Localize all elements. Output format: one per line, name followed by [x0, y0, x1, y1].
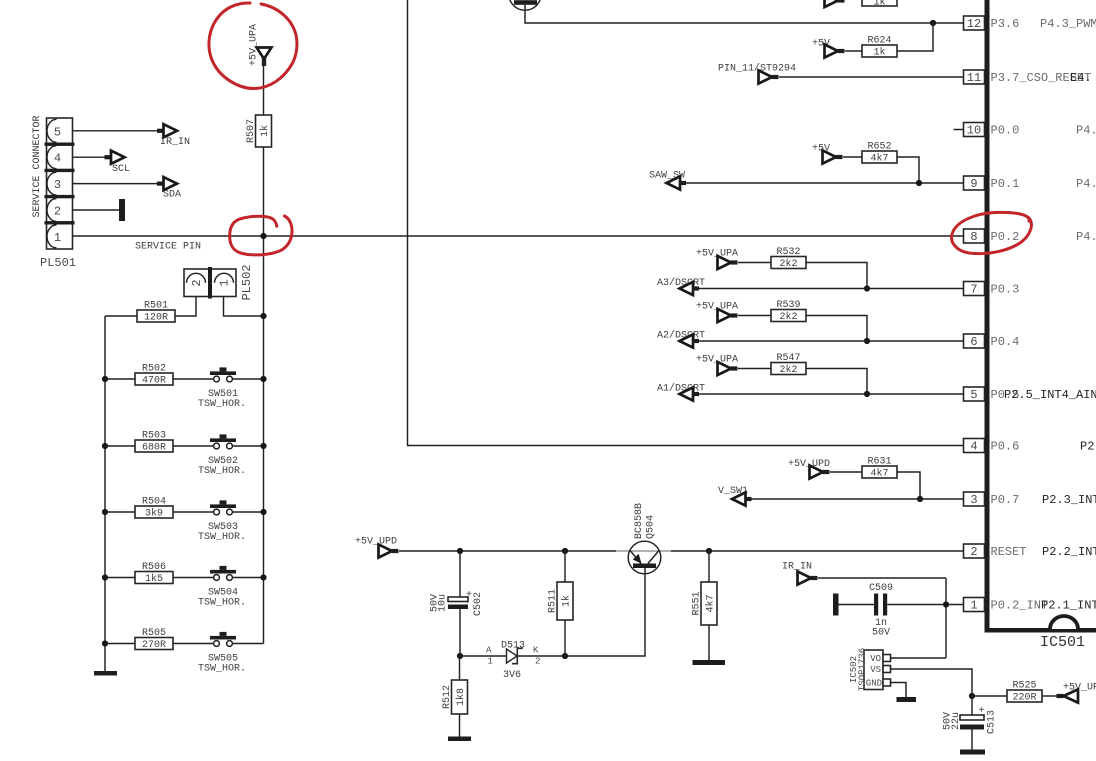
svg-text:1k5: 1k5	[145, 573, 163, 585]
svg-text:5: 5	[970, 388, 977, 402]
svg-text:3: 3	[54, 178, 61, 192]
svg-text:VS: VS	[870, 665, 881, 675]
wire IC502 VS	[891, 669, 973, 696]
svg-text:PL501: PL501	[40, 256, 76, 270]
IC501 pin 1 box	[964, 598, 985, 613]
power +5V (R624)	[812, 39, 845, 58]
wire	[845, 50, 862, 52]
diode D513 3V6 (zener)	[460, 641, 540, 682]
junction node service line / R507 bus	[260, 233, 266, 239]
svg-text:680R: 680R	[142, 443, 166, 454]
svg-text:9: 9	[970, 177, 977, 191]
svg-text:R507: R507	[246, 119, 257, 143]
svg-text:8: 8	[970, 230, 977, 244]
wire	[232, 643, 263, 645]
wire	[830, 471, 862, 473]
power +5V_UPA (R532)	[696, 249, 738, 270]
wire IR_IN / pin1 / IC502 VO vertical	[818, 577, 946, 579]
junction node R551 top	[706, 548, 712, 554]
wire to pin 9	[686, 182, 964, 184]
svg-text:TSW_HOR.: TSW_HOR.	[198, 664, 246, 675]
junction node pin3 / R631	[917, 496, 923, 502]
svg-text:10u: 10u	[438, 594, 449, 612]
svg-text:R631: R631	[867, 457, 891, 468]
IC501 pin 12 box	[964, 16, 985, 31]
IC501 pin 9 box	[964, 176, 985, 191]
IC501 pin 6 box	[964, 334, 985, 349]
junction node left bus row R503	[102, 443, 108, 449]
wire PL501 pin2	[73, 209, 120, 211]
svg-text:D513: D513	[501, 641, 525, 652]
wire	[806, 263, 867, 289]
wire	[843, 156, 862, 158]
svg-text:P4.: P4.	[1076, 124, 1096, 138]
svg-text:1: 1	[970, 599, 977, 613]
svg-text:SCL: SCL	[112, 164, 130, 175]
wire PL501 pin5	[73, 130, 158, 132]
svg-text:1: 1	[54, 231, 61, 245]
resistor R532 2k2	[771, 247, 806, 270]
svg-text:TSW_HOR.: TSW_HOR.	[198, 598, 246, 609]
power +5V_UPA (R547)	[696, 355, 738, 376]
junction node A3/DSCRT	[864, 285, 870, 291]
svg-text:P2.2_INT: P2.2_INT	[1042, 545, 1096, 559]
svg-text:+5V_UPD: +5V_UPD	[355, 537, 397, 548]
IC501 pin 7 box	[964, 282, 985, 297]
svg-text:IR_IN: IR_IN	[160, 137, 190, 148]
wire PL501 pin3	[73, 183, 158, 185]
wire	[738, 315, 771, 317]
svg-text:2: 2	[535, 657, 540, 667]
ground (IC502)	[897, 697, 917, 702]
wire VS to R525	[972, 695, 1007, 697]
wire PL502 pin1 to bus	[224, 297, 264, 317]
ground (R512)	[448, 737, 471, 742]
wire	[738, 368, 771, 370]
svg-text:2k2: 2k2	[779, 364, 797, 376]
wire	[897, 157, 919, 183]
wire	[263, 66, 265, 116]
wire R501 to left bus	[105, 315, 137, 317]
ground (C513)	[960, 750, 985, 755]
wire	[173, 378, 214, 380]
svg-text:R532: R532	[776, 247, 800, 258]
junction node right bus row R504	[260, 509, 266, 515]
svg-text:TSW_HOR.: TSW_HOR.	[198, 532, 246, 543]
resistor R501 120R	[137, 301, 175, 324]
ground (R551)	[693, 660, 726, 665]
wire	[173, 511, 214, 513]
wire	[173, 445, 214, 447]
junction node R511 top	[562, 548, 568, 554]
resistor R511 1k	[548, 582, 574, 620]
wire IC502 VO	[891, 657, 947, 659]
svg-text:P0.2: P0.2	[991, 230, 1020, 244]
svg-text:E4.: E4.	[1070, 71, 1092, 85]
transistor (partial, top edge)	[509, 0, 541, 10]
svg-text:4k7: 4k7	[705, 594, 717, 612]
svg-text:4k7: 4k7	[870, 468, 888, 480]
wire	[897, 23, 933, 51]
junction node C502 / R512 / D513	[457, 653, 463, 659]
svg-text:2k2: 2k2	[779, 311, 797, 323]
resistor R652 4k7	[862, 142, 897, 165]
svg-text:4: 4	[970, 440, 977, 454]
svg-text:R525: R525	[1012, 681, 1036, 692]
red annotation circle around +5V_UPA	[209, 3, 297, 89]
junction node left bus row R505	[102, 640, 108, 646]
svg-text:R652: R652	[867, 142, 891, 153]
junction node C502 top	[457, 548, 463, 554]
svg-text:R506: R506	[142, 562, 166, 573]
wire	[897, 472, 920, 499]
signal arrow IR_IN (bottom)	[782, 562, 818, 585]
svg-text:120R: 120R	[144, 313, 168, 324]
wire D513 to Q504 base	[517, 568, 645, 657]
capacitor C513 22u 50V	[943, 696, 998, 750]
power +5V (R652)	[812, 144, 843, 164]
wire	[105, 577, 135, 579]
red annotation circle around service-pin junction	[230, 216, 292, 255]
svg-text:PL502: PL502	[240, 264, 254, 300]
wire	[232, 511, 263, 513]
svg-text:SDA: SDA	[163, 190, 181, 201]
svg-text:P3.6: P3.6	[991, 17, 1020, 31]
signal arrow V_SW1	[718, 486, 752, 506]
svg-text:TSW_HOR.: TSW_HOR.	[198, 466, 246, 477]
wire IC502 GND	[891, 683, 907, 698]
wire PL501 pin4	[73, 156, 105, 158]
svg-text:Q504: Q504	[646, 515, 657, 539]
svg-text:50V: 50V	[872, 628, 890, 639]
IC IC501 bottom edge	[985, 628, 1096, 633]
wire	[173, 577, 214, 579]
wire pin 10 stub	[954, 129, 964, 131]
wire	[459, 656, 461, 680]
resistor R551 4k7	[692, 582, 718, 625]
resistor R539 2k2	[771, 300, 806, 323]
wire	[738, 262, 771, 264]
wire	[105, 511, 135, 513]
svg-text:3: 3	[970, 493, 977, 507]
svg-text:R502: R502	[142, 364, 166, 375]
wire to pin 11	[779, 76, 964, 78]
resistor R502 470R	[135, 364, 173, 387]
svg-text:3V6: 3V6	[503, 670, 521, 681]
signal arrow PIN_11/ST9294	[718, 63, 796, 84]
wire	[708, 551, 710, 582]
svg-text:BC858B: BC858B	[634, 503, 645, 539]
IC IC501 left edge	[985, 0, 990, 633]
svg-text:C502: C502	[473, 592, 484, 616]
svg-text:P2.5_INT4_AIN: P2.5_INT4_AIN	[1004, 388, 1096, 402]
junction node R511 bottom	[562, 653, 568, 659]
junction node left bus row R504	[102, 509, 108, 515]
resistor R504 3k9	[135, 497, 173, 520]
svg-text:1: 1	[218, 279, 232, 286]
red annotation circle around IC501 pin 8	[952, 212, 1032, 253]
wire to pin 3	[752, 498, 964, 500]
resistor R631 4k7	[862, 457, 897, 480]
svg-text:R512: R512	[442, 685, 453, 709]
svg-text:P4.3_PWM: P4.3_PWM	[1040, 17, 1096, 31]
svg-text:+: +	[979, 706, 985, 717]
switch SW504 TSW_HOR.	[198, 566, 246, 609]
svg-text:7: 7	[970, 283, 977, 297]
svg-text:R505: R505	[142, 628, 166, 639]
wire +5V_UPD to IC501 pin2 (RESET)	[399, 550, 964, 552]
resistor R503 680R	[135, 431, 173, 454]
wire to IC501 pin12	[525, 5, 964, 23]
svg-text:1: 1	[488, 657, 493, 667]
power +5V (cut off at top)	[825, 0, 845, 7]
svg-text:270R: 270R	[142, 640, 166, 651]
svg-text:IC501: IC501	[1040, 634, 1085, 651]
resistor R507 1k	[246, 115, 272, 147]
svg-text:R539: R539	[776, 300, 800, 311]
connector PL501	[45, 118, 75, 249]
svg-text:4k7: 4k7	[870, 153, 888, 165]
svg-text:GND: GND	[866, 679, 882, 689]
svg-text:A: A	[486, 646, 492, 656]
wire	[1042, 695, 1058, 697]
IC501 pin 10 box	[964, 123, 985, 138]
transistor Q504 BC858B (PNP)	[616, 503, 671, 574]
svg-text:470R: 470R	[142, 376, 166, 387]
switch SW505 TSW_HOR.	[198, 632, 246, 675]
svg-text:2k2: 2k2	[779, 258, 797, 270]
svg-text:R503: R503	[142, 431, 166, 442]
svg-text:K: K	[533, 646, 539, 656]
signal arrow IR_IN	[157, 124, 190, 148]
terminator bar pin2	[119, 199, 125, 221]
signal arrow SAW_SW	[649, 171, 686, 190]
resistor R525 220R	[1007, 681, 1042, 704]
junction node pin1 / IR_IN / VO	[943, 601, 949, 607]
power +5V_UPA (R539)	[696, 302, 738, 323]
terminator bar (C509 left)	[833, 594, 839, 616]
svg-text:4: 4	[54, 152, 61, 166]
ground (left bus)	[94, 671, 117, 676]
wire	[564, 551, 566, 582]
junction node A2/DSCRT	[864, 338, 870, 344]
resistor R624 1k	[862, 36, 897, 59]
power +5V_UPA (top)	[249, 24, 272, 66]
svg-text:1k: 1k	[873, 47, 885, 59]
IC501 pin 2 box	[964, 544, 985, 559]
junction node left bus row R502	[102, 376, 108, 382]
wire left bus	[104, 316, 106, 672]
svg-text:RESET: RESET	[991, 545, 1027, 559]
power +5V_UP (right edge)	[1057, 683, 1096, 703]
resistor R512 1k8	[442, 680, 468, 714]
svg-text:1k: 1k	[259, 125, 271, 137]
capacitor C502 10u 50V	[430, 551, 485, 656]
IC501 pin 4 box	[964, 439, 985, 454]
IC502 TSOP1736 (IR receiver)	[849, 648, 891, 691]
svg-text:P0.6: P0.6	[991, 440, 1020, 454]
svg-text:TSOP1736: TSOP1736	[858, 648, 868, 691]
switch SW501 TSW_HOR.	[198, 367, 246, 410]
wire	[105, 378, 135, 380]
svg-text:P0.3: P0.3	[991, 283, 1020, 297]
IC501 pin 3 box	[964, 492, 985, 507]
wire bus R507 to switch ladder	[263, 147, 265, 644]
svg-text:TSW_HOR.: TSW_HOR.	[198, 399, 246, 410]
svg-text:P2.3_INT: P2.3_INT	[1042, 493, 1096, 507]
svg-text:11: 11	[967, 71, 981, 85]
switch SW503 TSW_HOR.	[198, 500, 246, 543]
signal arrow SDA	[157, 177, 181, 201]
resistor R547 2k2	[771, 353, 806, 376]
svg-text:R511: R511	[548, 589, 559, 613]
svg-text:P0.0: P0.0	[991, 124, 1020, 138]
junction node right bus row R502	[260, 376, 266, 382]
IC501 pin 8 box	[964, 229, 985, 244]
svg-text:+: +	[466, 590, 472, 601]
svg-text:10: 10	[967, 124, 981, 138]
wire long vertical net to IC501 pin4	[408, 0, 964, 446]
svg-text:C513: C513	[987, 710, 998, 734]
svg-text:5: 5	[54, 125, 61, 139]
signal arrow A1/DSCRT	[657, 383, 705, 401]
resistor R505 270R	[135, 628, 173, 651]
svg-text:2: 2	[970, 545, 977, 559]
resistor R506 1k5	[135, 562, 173, 585]
svg-text:P0.1: P0.1	[991, 177, 1020, 191]
svg-text:1k: 1k	[873, 0, 885, 9]
signal arrow SCL	[105, 151, 131, 175]
svg-text:P0.7: P0.7	[991, 493, 1020, 507]
svg-text:R504: R504	[142, 497, 166, 508]
wire	[105, 643, 135, 645]
junction node pin9 / R652	[916, 180, 922, 186]
signal arrow A2/DSCRT	[657, 330, 705, 348]
svg-text:2: 2	[190, 279, 204, 286]
svg-text:P0.4: P0.4	[991, 335, 1020, 349]
svg-text:22u: 22u	[951, 712, 962, 730]
svg-text:PIN_11/ST9294: PIN_11/ST9294	[718, 63, 796, 75]
svg-text:1k: 1k	[561, 595, 573, 607]
svg-text:R551: R551	[692, 591, 703, 615]
svg-text:C509: C509	[869, 583, 893, 594]
signal arrow A3/DSCRT	[657, 277, 705, 295]
svg-text:P4.: P4.	[1076, 230, 1096, 244]
junction node pin12 / R624	[930, 20, 936, 26]
svg-text:VO: VO	[870, 654, 881, 664]
wire	[699, 393, 964, 395]
power +5V_UPD (reset line)	[355, 537, 399, 558]
junction node A1/DSCRT	[864, 391, 870, 397]
wire	[232, 577, 263, 579]
svg-text:P2: P2	[1080, 440, 1094, 454]
switch SW502 TSW_HOR.	[198, 434, 246, 477]
capacitor C509 1n 50V	[839, 583, 964, 639]
wire	[173, 643, 214, 645]
wire SERVICE PIN net (PL501 pin1 to IC501 pin8)	[73, 235, 964, 237]
svg-text:P0.2_INT: P0.2_INT	[991, 599, 1049, 613]
svg-text:R501: R501	[144, 301, 168, 312]
power +5V_UPD (R631)	[788, 459, 830, 479]
IC IC501 notch	[1050, 616, 1078, 629]
svg-text:SERVICE PIN: SERVICE PIN	[135, 242, 201, 253]
svg-text:3k9: 3k9	[145, 508, 163, 520]
junction node PL502 pin1 / bus	[260, 313, 266, 319]
junction node right bus row R503	[260, 443, 266, 449]
svg-text:SERVICE CONNECTOR: SERVICE CONNECTOR	[32, 115, 43, 217]
junction node VS / C513 / R525	[969, 693, 975, 699]
svg-text:220R: 220R	[1012, 693, 1036, 704]
wire	[232, 445, 263, 447]
svg-text:2: 2	[54, 205, 61, 219]
junction node right bus row R506	[260, 574, 266, 580]
svg-text:1k8: 1k8	[455, 688, 467, 706]
IC501 pin 11 box	[964, 70, 985, 85]
wire	[806, 316, 867, 342]
wire	[232, 378, 263, 380]
junction node left bus row R506	[102, 574, 108, 580]
wire	[806, 369, 867, 395]
connector PL502	[184, 267, 236, 299]
wire	[699, 340, 964, 342]
svg-text:12: 12	[967, 17, 981, 31]
svg-text:+5V_UP: +5V_UP	[1063, 683, 1096, 694]
wire PL502 pin2 to R501	[175, 297, 196, 317]
svg-text:P2.1_INT: P2.1_INT	[1041, 599, 1096, 613]
resistor 1k (cut off at top)	[862, 0, 897, 9]
svg-text:+5V_UPA: +5V_UPA	[249, 24, 260, 66]
svg-text:P4.: P4.	[1076, 177, 1096, 191]
svg-text:R547: R547	[776, 353, 800, 364]
wire	[699, 288, 964, 290]
IC501 pin 5 box	[964, 387, 985, 402]
svg-text:6: 6	[970, 335, 977, 349]
wire	[105, 445, 135, 447]
svg-text:R624: R624	[867, 36, 891, 47]
